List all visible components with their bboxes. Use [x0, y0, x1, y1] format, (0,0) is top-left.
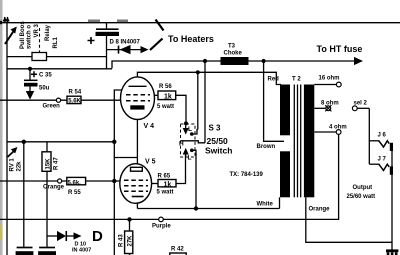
svg-text:R 47: R 47 — [54, 157, 60, 170]
svg-text:TX: 784-139: TX: 784-139 — [230, 172, 264, 178]
svg-text:22k: 22k — [17, 161, 23, 172]
svg-text:V 5: V 5 — [145, 159, 156, 166]
svg-text:4 ohm: 4 ohm — [329, 125, 347, 131]
svg-text:J 6: J 6 — [378, 133, 387, 139]
svg-text:D: D — [92, 228, 103, 245]
svg-text:RL1: RL1 — [53, 37, 59, 49]
svg-text:R 43: R 43 — [118, 234, 124, 247]
svg-text:R 65: R 65 — [158, 173, 171, 179]
svg-text:R 55: R 55 — [68, 190, 81, 196]
svg-text:RV 1: RV 1 — [10, 158, 16, 172]
svg-text:D 8 IN4007: D 8 IN4007 — [110, 40, 141, 46]
svg-text:T3: T3 — [228, 44, 236, 50]
svg-text:R 54: R 54 — [69, 90, 82, 96]
svg-text:sel 2: sel 2 — [354, 101, 368, 107]
svg-text:Purple: Purple — [152, 224, 171, 230]
svg-text:D 10: D 10 — [75, 241, 87, 247]
svg-text:Brown: Brown — [257, 144, 276, 150]
svg-text:5.6K: 5.6K — [68, 98, 81, 104]
svg-text:5 watt: 5 watt — [157, 190, 174, 196]
svg-text:R 56: R 56 — [159, 84, 172, 90]
svg-text:Choke: Choke — [224, 51, 243, 57]
svg-text:T 2: T 2 — [292, 77, 301, 83]
svg-text:50u: 50u — [39, 86, 50, 92]
svg-text:27K: 27K — [128, 235, 134, 247]
svg-text:5.6k.: 5.6k. — [68, 180, 82, 186]
svg-text:1k: 1k — [164, 93, 172, 100]
svg-text:15K: 15K — [46, 158, 52, 170]
svg-text:L: L — [188, 126, 192, 133]
svg-text:C 35: C 35 — [39, 73, 52, 79]
svg-text:25/60 watt: 25/60 watt — [347, 194, 376, 200]
svg-text:Pull Boos: Pull Boos — [20, 21, 26, 49]
svg-text:25/50: 25/50 — [207, 136, 229, 146]
svg-text:16 ohm: 16 ohm — [319, 76, 340, 82]
svg-text:White: White — [257, 202, 274, 208]
svg-text:L: L — [188, 155, 192, 162]
svg-text:J 7: J 7 — [378, 157, 387, 163]
svg-text:5 watt: 5 watt — [157, 104, 174, 110]
svg-text:Relay: Relay — [45, 24, 51, 41]
svg-text:R 42: R 42 — [171, 247, 184, 253]
svg-text:Red: Red — [268, 77, 280, 83]
svg-text:8 ohm: 8 ohm — [321, 101, 339, 107]
svg-text:S 3: S 3 — [209, 124, 222, 133]
svg-text:V 4: V 4 — [144, 123, 155, 130]
svg-text:1k: 1k — [164, 181, 172, 188]
svg-text:To HT fuse: To HT fuse — [317, 44, 363, 54]
svg-text:H: H — [179, 141, 184, 148]
svg-text:IN 4007: IN 4007 — [72, 248, 91, 254]
svg-text:Output: Output — [353, 185, 373, 191]
svg-text:Switch: Switch — [205, 146, 232, 156]
svg-text:Orange: Orange — [43, 185, 65, 191]
svg-text:To Heaters: To Heaters — [168, 34, 214, 44]
svg-text:VR 3: VR 3 — [34, 23, 40, 37]
svg-text:Green: Green — [43, 104, 61, 110]
svg-text:Orange: Orange — [309, 207, 331, 213]
svg-text:switch o: switch o — [27, 25, 33, 49]
